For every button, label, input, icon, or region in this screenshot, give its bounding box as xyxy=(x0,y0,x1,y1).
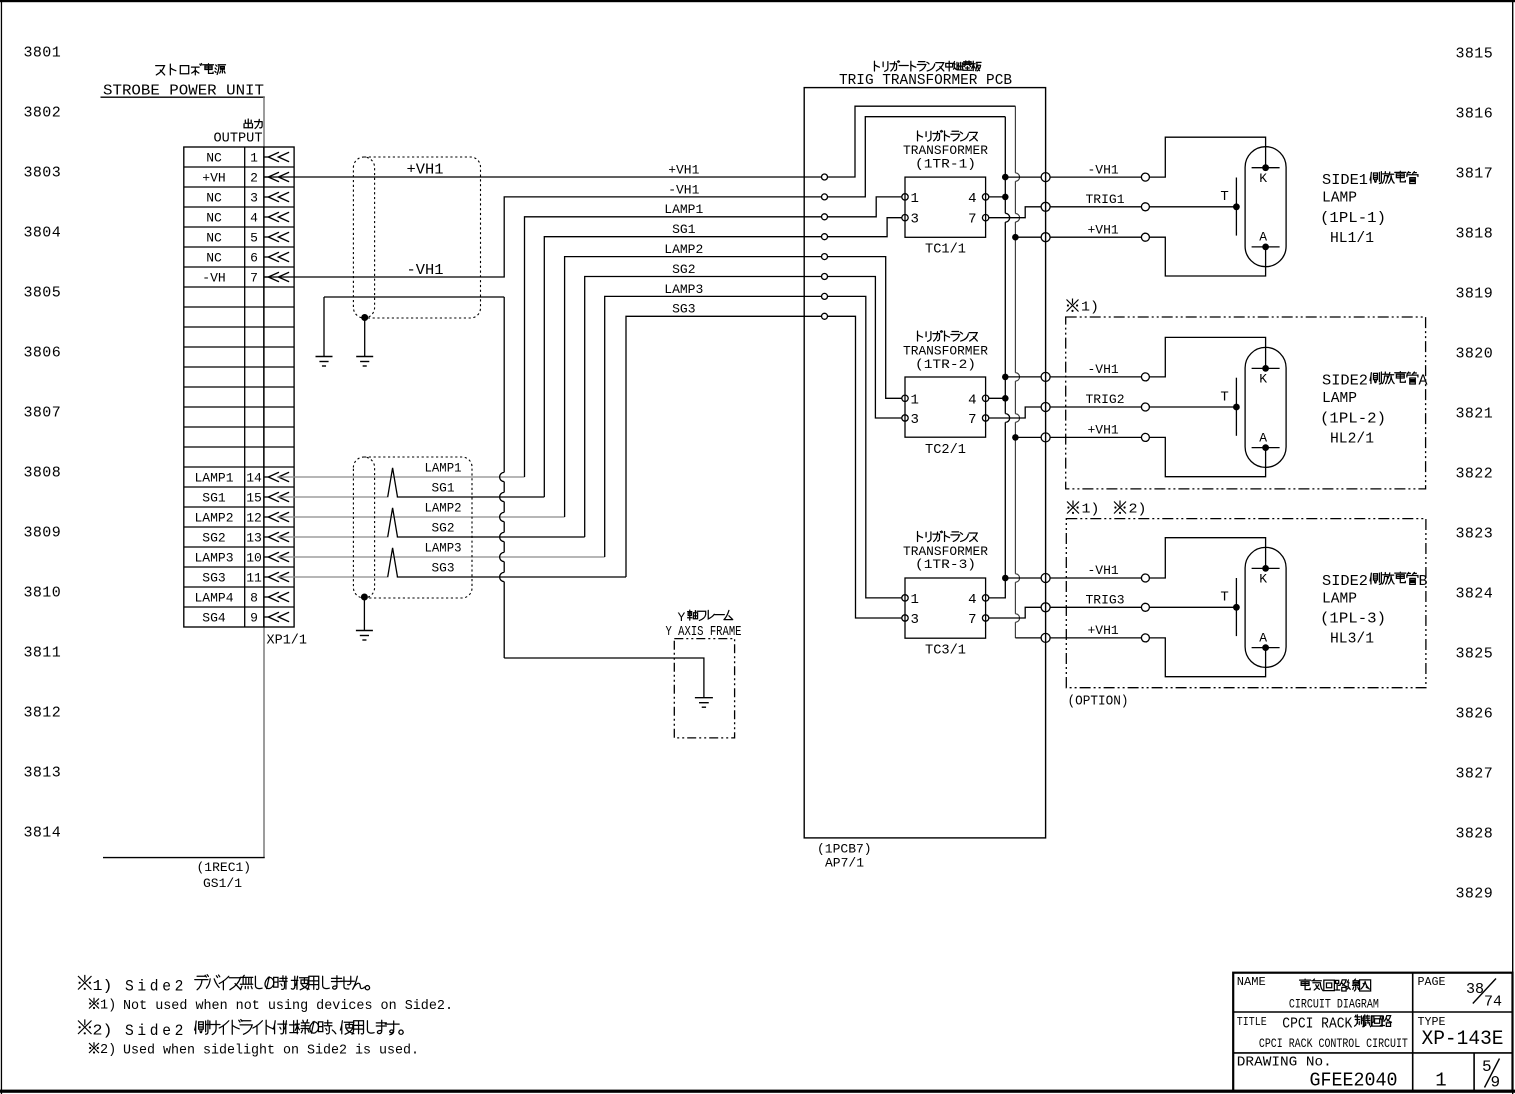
svg-text:4: 4 xyxy=(968,191,976,207)
shielded cable symbol lower (LAMP/SG pairs) xyxy=(353,457,472,598)
svg-text:1): 1) xyxy=(93,978,113,995)
label +VH1 upper cable xyxy=(407,162,444,179)
title block DRAWING No. cell GFEE2040 xyxy=(1237,1054,1398,1091)
connector XP1 pin labels and numbers xyxy=(194,151,262,626)
svg-text:1): 1) xyxy=(1082,502,1100,518)
svg-text:3809: 3809 xyxy=(24,525,62,542)
label TRIG1 lamp 1 xyxy=(1086,192,1125,207)
connector designator (1REC1) GS1/1 xyxy=(197,860,252,891)
svg-text:+VH1: +VH1 xyxy=(668,162,699,177)
shield drain junction dot lower xyxy=(361,594,368,601)
svg-text:SIDE2: SIDE2 xyxy=(1322,573,1368,590)
svg-text:SG1: SG1 xyxy=(432,481,455,496)
wire frame ground to Y axis frame xyxy=(324,297,704,690)
wire lamp 2 anode loop xyxy=(1149,437,1265,476)
lamp 3 input terminal circles xyxy=(1141,574,1149,642)
svg-text:11: 11 xyxy=(246,571,262,586)
PCB designator (1PCB7) AP7/1 xyxy=(817,842,872,871)
wire TR2 pin4 to bus A xyxy=(989,397,1006,399)
svg-text:7: 7 xyxy=(250,271,258,286)
grid reference column right 3815-3829 xyxy=(1456,46,1494,903)
title block PAGE cell 38/74 xyxy=(1418,975,1503,1010)
svg-text:K: K xyxy=(1259,372,1267,387)
svg-text:CPCI RACK: CPCI RACK xyxy=(1282,1015,1352,1032)
svg-text:Used when sidelight on Side2 i: Used when sidelight on Side2 is used. xyxy=(123,1044,419,1059)
wire +VH1 to lamp 3 xyxy=(1050,637,1141,639)
lamp 1 trigger electrode T xyxy=(1220,178,1239,236)
label -VH1 lamp 1 xyxy=(1088,162,1119,177)
label -VH1 lamp 3 xyxy=(1088,563,1119,578)
title block frame xyxy=(1233,973,1512,1091)
svg-text:GS1/1: GS1/1 xyxy=(203,876,242,891)
svg-text:-VH1: -VH1 xyxy=(1088,162,1119,177)
svg-text:TITLE: TITLE xyxy=(1237,1015,1267,1029)
label +VH1 lamp 2 xyxy=(1088,423,1119,438)
svg-text:6: 6 xyxy=(250,251,258,266)
PCB AP7 outline xyxy=(804,88,1045,838)
svg-text:SG1: SG1 xyxy=(202,491,226,506)
svg-text:LAMP: LAMP xyxy=(1322,390,1357,407)
ground frame left xyxy=(316,297,333,366)
svg-text:3823: 3823 xyxy=(1456,526,1494,543)
wire TRIG2 to trigger electrode xyxy=(1149,406,1236,408)
wire TRIG1 to lamp 1 trigger xyxy=(1050,206,1141,208)
label TRIG3 lamp 3 xyxy=(1086,593,1125,608)
wire TR1 pin4 to bus A xyxy=(989,196,1006,198)
note ※1 japanese xyxy=(78,975,370,996)
wire LAMP2 pin to PCB (LAMP2 net) xyxy=(278,257,822,517)
svg-text:SIDE2: SIDE2 xyxy=(1322,373,1368,390)
transformer U2 (1TR-2) box xyxy=(903,331,988,458)
svg-text:SG2: SG2 xyxy=(202,531,225,546)
svg-text:SG4: SG4 xyxy=(202,611,226,626)
wire SG2 to transformer pin 3 xyxy=(828,277,902,419)
bus -VH1 vertical (bus A) xyxy=(1002,117,1010,582)
wire -VH1 output row 1 xyxy=(1005,176,1041,178)
lamp 3 name block xyxy=(1320,572,1428,648)
svg-text:TRIG2: TRIG2 xyxy=(1086,392,1125,407)
wire -VH1 bus feed (entry to bus A) xyxy=(828,117,1006,197)
svg-text:(1TR-3): (1TR-3) xyxy=(915,557,976,572)
wire LAMP3 pin to PCB (LAMP3 net) xyxy=(278,296,822,557)
wire +VH1 to lamp 1 xyxy=(1050,236,1141,238)
svg-text:SG2: SG2 xyxy=(432,521,455,536)
svg-text:GFEE2040: GFEE2040 xyxy=(1310,1069,1398,1091)
lamp 2 name block xyxy=(1320,372,1428,448)
svg-text:TC2/1: TC2/1 xyxy=(925,442,966,458)
svg-text:10: 10 xyxy=(246,551,262,566)
label (OPTION) xyxy=(1068,695,1129,710)
svg-text:3803: 3803 xyxy=(24,165,62,182)
wire TRIG3 to lamp 3 trigger xyxy=(1050,606,1141,608)
title block sheet cell 5/9 xyxy=(1482,1058,1500,1092)
svg-text:A: A xyxy=(1259,630,1267,645)
svg-text:LAMP1: LAMP1 xyxy=(425,461,462,476)
svg-text:A: A xyxy=(1259,230,1267,245)
svg-text:LAMP: LAMP xyxy=(1322,590,1357,607)
note marks ※1) ※2) for lamp 3 option box xyxy=(1067,501,1147,518)
svg-text:TRIG3: TRIG3 xyxy=(1086,593,1125,608)
svg-text:Side2: Side2 xyxy=(125,1022,187,1040)
svg-text:NC: NC xyxy=(206,191,222,206)
svg-text:3810: 3810 xyxy=(24,585,62,602)
PCB edge terminal circles row 3 xyxy=(1041,574,1050,643)
note ※2 english xyxy=(89,1042,419,1058)
bus +VH1 vertical (bus B) xyxy=(1012,106,1020,638)
wire -VH1 output row 3 xyxy=(1005,577,1041,579)
wire lamp 2 cathode loop xyxy=(1149,337,1265,377)
wire LAMP3 to transformer pin 1 xyxy=(828,296,902,598)
svg-text:CPCI RACK CONTROL CIRCUIT: CPCI RACK CONTROL CIRCUIT xyxy=(1259,1036,1408,1051)
wire -VH pin7 to PCB (-VH1 net) xyxy=(264,197,822,277)
svg-text:LAMP3: LAMP3 xyxy=(664,282,703,297)
svg-text:3812: 3812 xyxy=(24,705,62,722)
svg-text:13: 13 xyxy=(246,531,262,546)
svg-text:3801: 3801 xyxy=(24,45,62,62)
svg-text:2): 2) xyxy=(100,1043,116,1058)
strobe power unit GS1 title xyxy=(101,64,265,100)
svg-text:3818: 3818 xyxy=(1456,226,1494,243)
transformer U3 (1TR-3) box xyxy=(903,531,988,659)
svg-text:LAMP: LAMP xyxy=(1322,190,1357,207)
label +VH1 lamp 3 xyxy=(1088,623,1119,638)
svg-text:3820: 3820 xyxy=(1456,346,1494,363)
lamp 1 name block xyxy=(1320,171,1418,247)
svg-text:TRIG1: TRIG1 xyxy=(1086,192,1125,207)
wire -VH1 to lamp 3 xyxy=(1050,577,1141,579)
note mark ※1) for lamp 2 option box xyxy=(1067,299,1100,316)
connector GS1 bracket outline xyxy=(103,97,265,857)
Y axis frame box xyxy=(666,610,742,738)
grid reference column left 3801-3814 xyxy=(24,45,62,842)
svg-text:LAMP3: LAMP3 xyxy=(425,541,462,556)
wire LAMP1 pin to PCB (LAMP1 net) xyxy=(278,217,822,477)
svg-text:3: 3 xyxy=(911,412,919,428)
lamp 2 trigger electrode T xyxy=(1220,378,1239,436)
svg-text:AP7/1: AP7/1 xyxy=(825,856,864,871)
svg-text:B: B xyxy=(1419,573,1428,590)
connector XP1 chevron contacts xyxy=(264,152,289,621)
transformer U1 (1TR-1) box xyxy=(903,130,988,257)
wire +VH1 to lamp 2 xyxy=(1050,436,1141,438)
svg-text:2): 2) xyxy=(93,1023,113,1040)
PCB edge terminal circles row 1 xyxy=(1041,173,1050,242)
svg-text:3829: 3829 xyxy=(1456,886,1494,903)
svg-text:Not used when not using device: Not used when not using devices on Side2… xyxy=(123,999,453,1014)
svg-text:3805: 3805 xyxy=(24,285,62,302)
svg-text:+VH1: +VH1 xyxy=(1088,623,1119,638)
svg-text:4: 4 xyxy=(968,592,976,608)
svg-text:SG1: SG1 xyxy=(672,222,696,237)
wire LAMP1 to transformer pin 1 xyxy=(828,197,902,217)
svg-text:3806: 3806 xyxy=(24,345,62,362)
svg-text:3825: 3825 xyxy=(1456,646,1494,663)
wire -VH1 to lamp 1 xyxy=(1050,176,1141,178)
svg-text:(1REC1): (1REC1) xyxy=(197,860,252,875)
svg-text:14: 14 xyxy=(246,471,262,486)
svg-text:HL1/1: HL1/1 xyxy=(1330,230,1374,247)
svg-text:3821: 3821 xyxy=(1456,406,1494,423)
svg-text:15: 15 xyxy=(246,491,262,506)
shielded cable symbol upper (+VH/-VH pair) xyxy=(353,157,480,318)
option box lamp 3 (dash-dot) xyxy=(1066,519,1426,688)
svg-text:3824: 3824 xyxy=(1456,586,1494,603)
svg-text:SG3: SG3 xyxy=(202,571,225,586)
svg-text:DRAWING No.: DRAWING No. xyxy=(1237,1054,1332,1070)
svg-text:LAMP2: LAMP2 xyxy=(194,511,233,526)
svg-text:1: 1 xyxy=(1435,1070,1446,1092)
svg-text:SIDE1: SIDE1 xyxy=(1322,172,1368,189)
svg-text:3802: 3802 xyxy=(24,105,62,122)
ground shield upper cable xyxy=(356,318,373,367)
svg-text:12: 12 xyxy=(246,511,262,526)
svg-text:NC: NC xyxy=(206,151,222,166)
svg-text:NAME: NAME xyxy=(1237,975,1266,989)
wire +VH pin2 to PCB (+VH1 net) xyxy=(264,176,822,178)
wire SG2 pin to PCB (SG2 net) xyxy=(278,277,822,538)
svg-text:3: 3 xyxy=(911,612,919,628)
title block revision cell 1 xyxy=(1435,1070,1446,1092)
svg-text:A: A xyxy=(1419,373,1428,390)
svg-text:1: 1 xyxy=(911,592,919,608)
title block TYPE cell XP-143E xyxy=(1418,1015,1504,1051)
svg-text:-VH1: -VH1 xyxy=(407,262,444,279)
ground Y axis frame xyxy=(695,690,713,708)
svg-text:1: 1 xyxy=(250,151,258,166)
svg-text:2: 2 xyxy=(250,171,258,186)
svg-text:3819: 3819 xyxy=(1456,286,1494,303)
PCB edge terminal circles row 2 xyxy=(1041,372,1050,442)
wire TR3 pin4 to bus A xyxy=(989,578,1006,598)
svg-text:NC: NC xyxy=(206,231,222,246)
svg-text:2): 2) xyxy=(1129,502,1147,518)
PCB entry terminal circles xyxy=(822,174,828,319)
wire lamp 1 anode loop xyxy=(1149,237,1265,276)
label -VH1 upper cable xyxy=(407,262,444,279)
wire +VH1 output row 1 xyxy=(1015,236,1041,238)
svg-text:Side2: Side2 xyxy=(125,978,187,996)
lamp 2 input terminal circles xyxy=(1141,373,1149,442)
wire TRIG3 from pin7 to output xyxy=(989,607,1041,618)
svg-text:A: A xyxy=(1259,430,1267,445)
svg-text:3826: 3826 xyxy=(1456,706,1494,723)
svg-text:7: 7 xyxy=(968,612,976,628)
lamp 2 flash tube (1PL-2) xyxy=(1245,347,1286,467)
connector designator XP1/1 xyxy=(267,634,308,649)
svg-text:+VH1: +VH1 xyxy=(1088,222,1119,237)
svg-text:3813: 3813 xyxy=(24,765,62,782)
svg-text:LAMP2: LAMP2 xyxy=(425,501,462,516)
wire SG1 pin to PCB (SG1 net) xyxy=(278,237,822,497)
title block TITLE cell CPCI RACK制御回路 xyxy=(1237,1015,1408,1051)
svg-text:T: T xyxy=(1220,389,1228,405)
wire labels at PCB entry xyxy=(664,162,703,316)
svg-text:(OPTION): (OPTION) xyxy=(1068,695,1129,710)
svg-text:9: 9 xyxy=(1491,1074,1501,1092)
svg-text:TRIG TRANSFORMER PCB: TRIG TRANSFORMER PCB xyxy=(839,72,1012,89)
svg-text:+VH1: +VH1 xyxy=(1088,423,1119,438)
transformer U1 pin circles and numbers xyxy=(902,191,989,228)
svg-text:(1TR-1): (1TR-1) xyxy=(915,157,976,172)
lamp 3 trigger electrode T xyxy=(1220,578,1239,636)
label TRIG2 lamp 2 xyxy=(1086,392,1125,407)
svg-text:(1PL-1): (1PL-1) xyxy=(1320,210,1386,227)
wire lamp 3 anode loop xyxy=(1149,638,1265,677)
svg-text:XP-143E: XP-143E xyxy=(1422,1028,1504,1051)
svg-text:CIRCUIT DIAGRAM: CIRCUIT DIAGRAM xyxy=(1289,996,1379,1011)
svg-text:3807: 3807 xyxy=(24,405,62,422)
svg-text:LAMP2: LAMP2 xyxy=(664,242,703,257)
svg-text:NC: NC xyxy=(206,211,222,226)
svg-text:3828: 3828 xyxy=(1456,826,1494,843)
svg-text:1): 1) xyxy=(100,999,116,1014)
svg-text:K: K xyxy=(1259,572,1267,587)
svg-text:4: 4 xyxy=(250,211,258,226)
lamp 3 flash tube (1PL-3) xyxy=(1245,547,1286,667)
svg-text:38: 38 xyxy=(1466,981,1484,998)
svg-text:TC1/1: TC1/1 xyxy=(925,242,966,258)
svg-text:5: 5 xyxy=(250,231,258,246)
svg-text:K: K xyxy=(1259,171,1267,186)
svg-text:LAMP4: LAMP4 xyxy=(194,591,233,606)
svg-text:74: 74 xyxy=(1484,994,1502,1011)
svg-text:(1PCB7): (1PCB7) xyxy=(817,842,872,857)
svg-text:TC3/1: TC3/1 xyxy=(925,643,966,659)
label -VH1 lamp 2 xyxy=(1088,362,1119,377)
output header 出力 OUTPUT xyxy=(214,119,263,146)
svg-text:1: 1 xyxy=(911,392,919,408)
labels pair wires lower cable xyxy=(425,461,462,576)
svg-text:3808: 3808 xyxy=(24,465,62,482)
svg-text:LAMP3: LAMP3 xyxy=(194,551,233,566)
svg-text:PAGE: PAGE xyxy=(1418,975,1446,989)
svg-text:7: 7 xyxy=(968,212,976,228)
wire SG3 pin to PCB (SG3 net) xyxy=(278,316,822,577)
svg-text:T: T xyxy=(1220,590,1228,606)
note ※2 japanese xyxy=(78,1019,403,1040)
title block NAME cell 電気回路線図 CIRCUIT DIAGRAM xyxy=(1237,975,1379,1011)
wire TRIG2 from pin7 to output xyxy=(989,407,1041,418)
wire TRIG1 to trigger electrode xyxy=(1149,206,1236,208)
svg-text:SG3: SG3 xyxy=(672,302,695,317)
svg-text:+VH: +VH xyxy=(202,171,225,186)
svg-text:-VH1: -VH1 xyxy=(1088,362,1119,377)
lamp 1 flash tube (1PL-1) xyxy=(1245,147,1286,267)
svg-text:HL3/1: HL3/1 xyxy=(1330,631,1374,648)
svg-text:3815: 3815 xyxy=(1456,46,1494,63)
svg-text:3: 3 xyxy=(911,212,919,228)
svg-text:3: 3 xyxy=(250,191,258,206)
svg-text:-VH1: -VH1 xyxy=(668,182,699,197)
svg-text:(1TR-2): (1TR-2) xyxy=(915,357,976,372)
ground shield lower cable xyxy=(356,597,373,640)
svg-text:-VH: -VH xyxy=(202,271,225,286)
svg-text:NC: NC xyxy=(206,251,222,266)
wire -VH1 output row 2 xyxy=(1005,376,1041,378)
svg-text:3814: 3814 xyxy=(24,825,62,842)
wire -VH1 to lamp 2 xyxy=(1050,376,1141,378)
svg-text:9: 9 xyxy=(250,611,258,626)
svg-text:1: 1 xyxy=(911,191,919,207)
svg-text:(1PL-2): (1PL-2) xyxy=(1320,410,1386,427)
svg-text:Y AXIS FRAME: Y AXIS FRAME xyxy=(666,625,742,640)
svg-text:-VH1: -VH1 xyxy=(1088,563,1119,578)
wire lamp 1 cathode loop xyxy=(1149,137,1265,177)
twisted pair crossover marks xyxy=(388,468,398,577)
svg-text:LAMP1: LAMP1 xyxy=(664,202,703,217)
connector XP1 terminal table xyxy=(184,147,294,627)
svg-text:T: T xyxy=(1220,189,1228,205)
svg-text:XP1/1: XP1/1 xyxy=(267,634,308,649)
wire LAMP2 to transformer pin 1 xyxy=(828,257,902,399)
svg-text:SG3: SG3 xyxy=(432,561,455,576)
svg-text:4: 4 xyxy=(968,392,976,408)
transformer U3 pin circles and numbers xyxy=(902,592,989,628)
shield drain junction dot upper xyxy=(361,314,368,321)
wire +VH1 output row 3 xyxy=(1015,637,1041,639)
lamp 1 input terminal circles xyxy=(1141,173,1149,241)
svg-text:3827: 3827 xyxy=(1456,766,1494,783)
svg-text:SG2: SG2 xyxy=(672,262,695,277)
PCB AP7 title トリガートランス中継基板 TRIG TRANSFORMER PCB xyxy=(839,61,1012,89)
option box lamp 2 (dash-dot) xyxy=(1066,317,1426,489)
svg-text:3822: 3822 xyxy=(1456,466,1494,483)
svg-text:3811: 3811 xyxy=(24,645,62,662)
svg-text:(1PL-3): (1PL-3) xyxy=(1320,611,1386,628)
svg-text:8: 8 xyxy=(250,591,258,606)
note ※1 english xyxy=(89,998,453,1014)
wire TRIG1 from pin7 to output xyxy=(989,207,1041,218)
svg-text:+VH1: +VH1 xyxy=(407,162,444,179)
wire +VH1 output row 2 xyxy=(1015,436,1041,438)
svg-text:7: 7 xyxy=(968,412,976,428)
svg-text:1): 1) xyxy=(1081,300,1099,316)
wire SG3 to transformer pin 3 xyxy=(828,316,902,618)
transformer U2 pin circles and numbers xyxy=(902,392,989,428)
svg-text:OUTPUT: OUTPUT xyxy=(214,132,263,147)
svg-text:3817: 3817 xyxy=(1456,166,1494,183)
svg-text:LAMP1: LAMP1 xyxy=(194,471,233,486)
svg-text:Y: Y xyxy=(678,610,686,625)
wire lamp 3 cathode loop xyxy=(1149,538,1265,578)
svg-text:3804: 3804 xyxy=(24,225,62,242)
wire SG1 to transformer pin 3 xyxy=(828,218,902,237)
wire TRIG3 to trigger electrode xyxy=(1149,606,1236,608)
label +VH1 lamp 1 xyxy=(1088,222,1119,237)
svg-text:3816: 3816 xyxy=(1456,106,1494,123)
wire +VH1 bus feed (entry to bus B) xyxy=(828,106,1016,177)
svg-text:HL2/1: HL2/1 xyxy=(1330,430,1374,447)
wire TRIG2 to lamp 2 trigger xyxy=(1050,406,1141,408)
